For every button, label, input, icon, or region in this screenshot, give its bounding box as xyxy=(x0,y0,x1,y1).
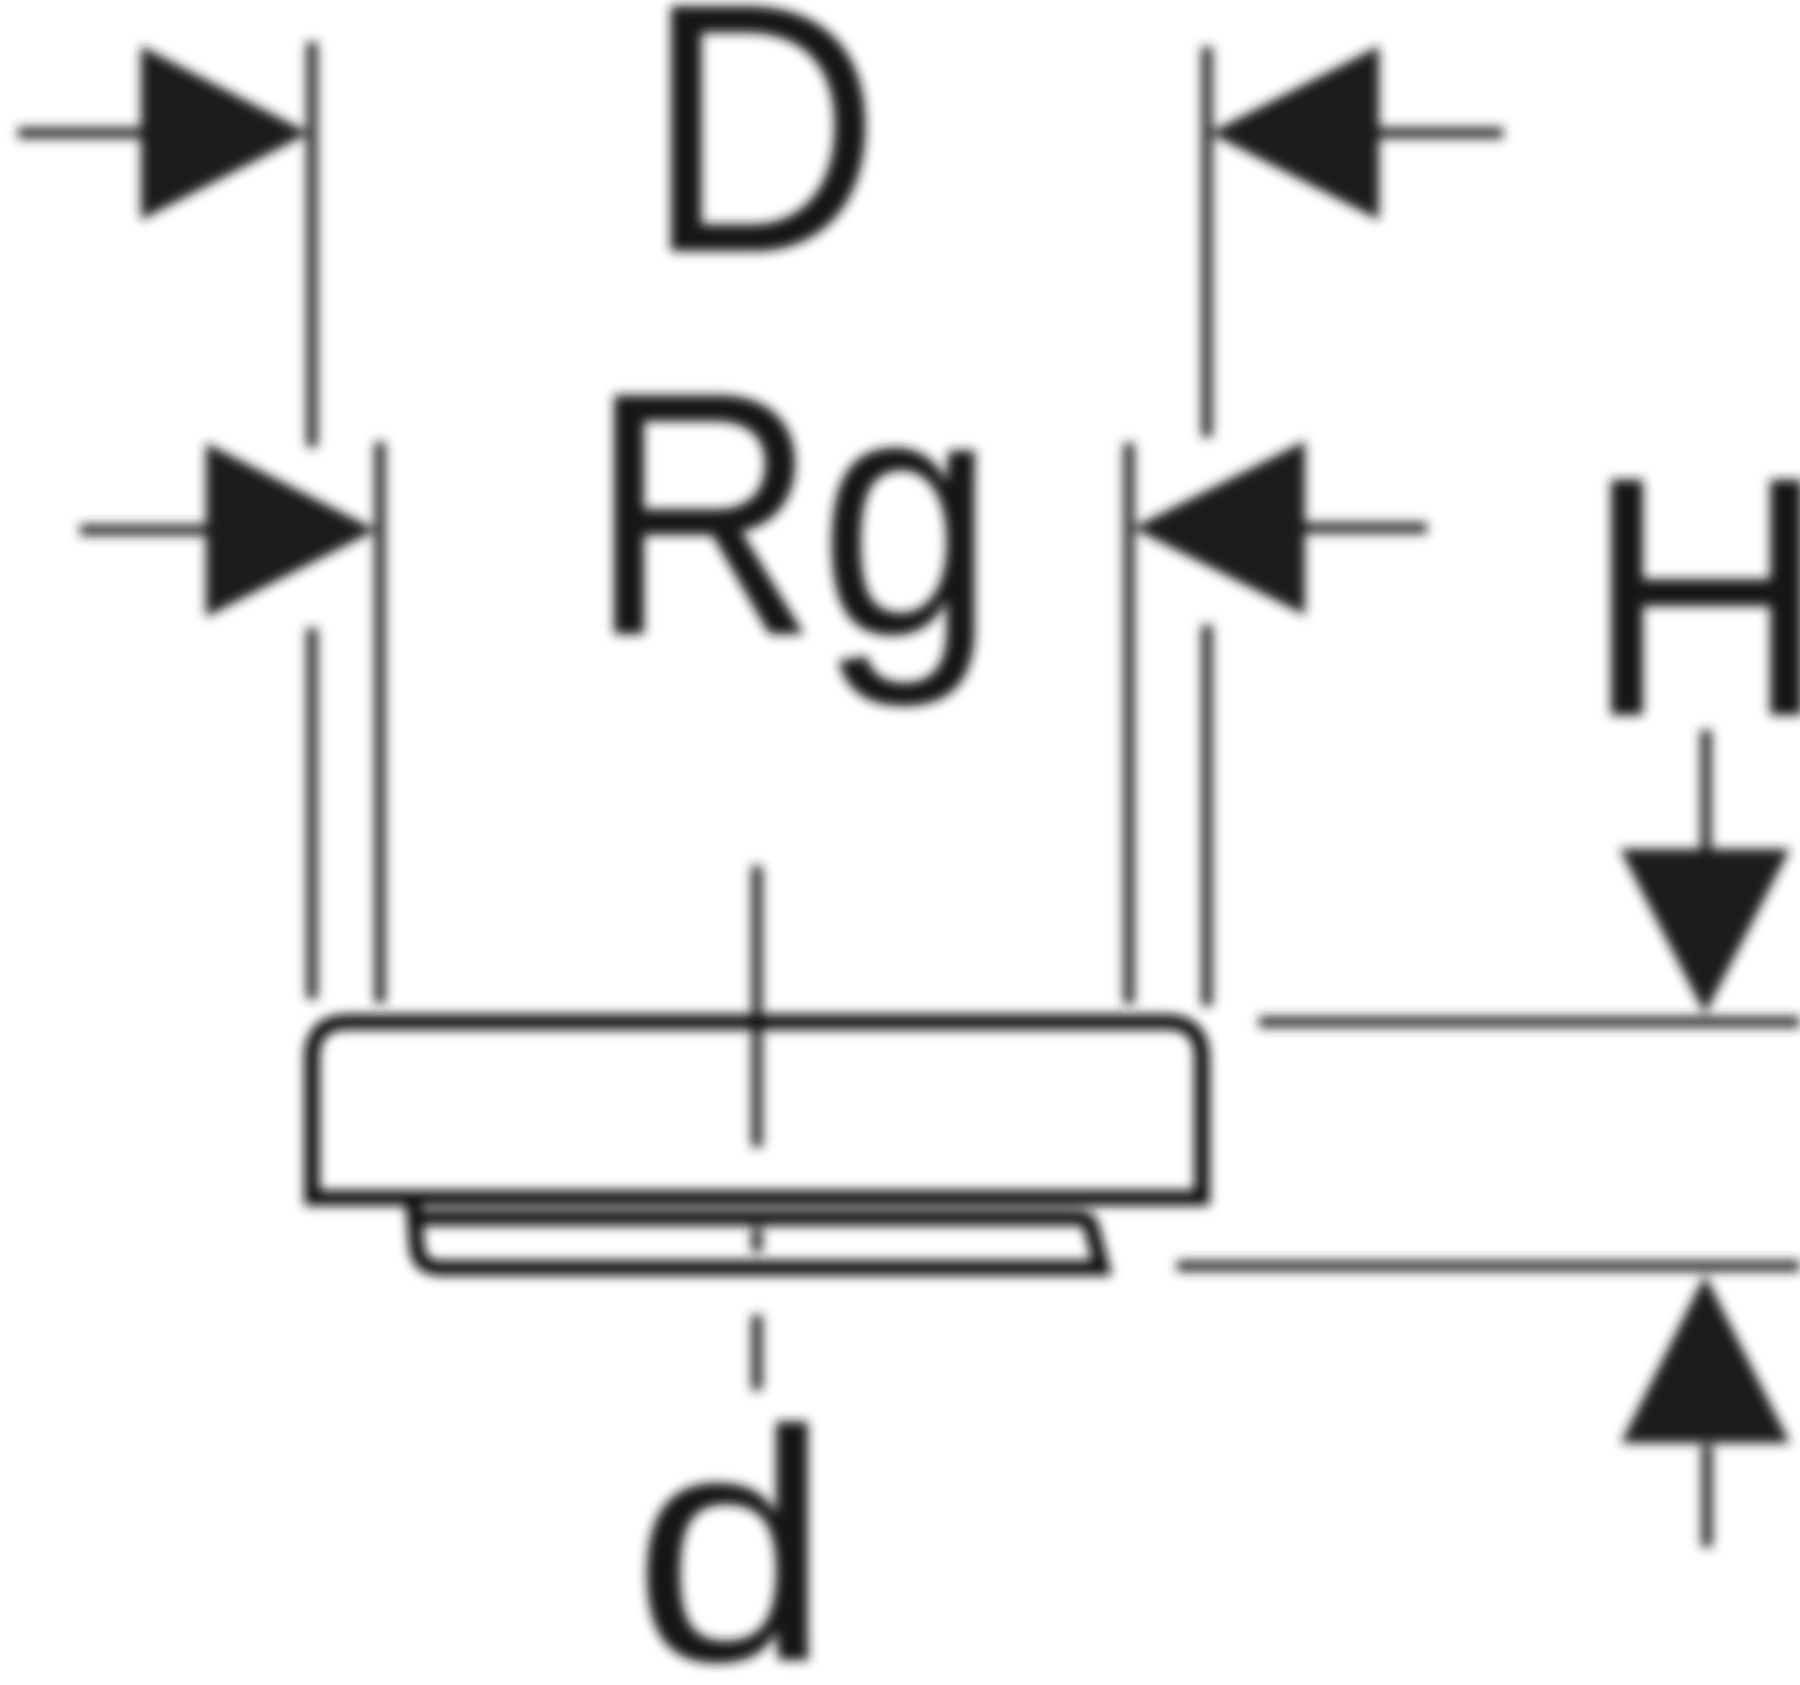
node centerline d axis dash 3 xyxy=(752,1315,763,1390)
node H down arrowhead xyxy=(1620,849,1790,1014)
svg-text:Rg: Rg xyxy=(588,320,996,710)
wire H upper reference line xyxy=(1259,1017,1800,1028)
svg-text:d: d xyxy=(632,1362,832,1680)
wire H arrow stem lower xyxy=(1702,1445,1713,1547)
node D right arrowhead xyxy=(1210,46,1379,220)
wire H lower reference line xyxy=(1177,1261,1800,1272)
wire D left extension line upper xyxy=(307,42,318,447)
part flange outline xyxy=(312,1022,1202,1198)
wire D right extension line lower xyxy=(1202,625,1213,1006)
node centerline d axis dash 2 xyxy=(752,1228,763,1252)
svg-text:D: D xyxy=(644,0,881,327)
node Rg left arrowhead xyxy=(206,443,376,617)
wire Rg left extension line xyxy=(375,442,386,1003)
wire Rg right extension line xyxy=(1124,443,1135,1004)
part spigot outline xyxy=(413,1200,1102,1268)
node D left arrowhead xyxy=(141,46,309,220)
node Rg right arrowhead xyxy=(1133,441,1305,615)
svg-text:H: H xyxy=(1583,406,1800,788)
wire D left extension line lower xyxy=(307,628,318,999)
wire D left leader line xyxy=(18,128,146,139)
wire H arrow stem upper xyxy=(1701,730,1712,852)
node H up arrowhead xyxy=(1621,1275,1790,1443)
wire Rg left leader line xyxy=(80,525,210,536)
wire D right extension line upper xyxy=(1202,47,1213,437)
node centerline d axis segment 1 xyxy=(752,866,763,1147)
wire D right leader line xyxy=(1374,128,1503,139)
wire Rg right leader line xyxy=(1302,523,1427,534)
